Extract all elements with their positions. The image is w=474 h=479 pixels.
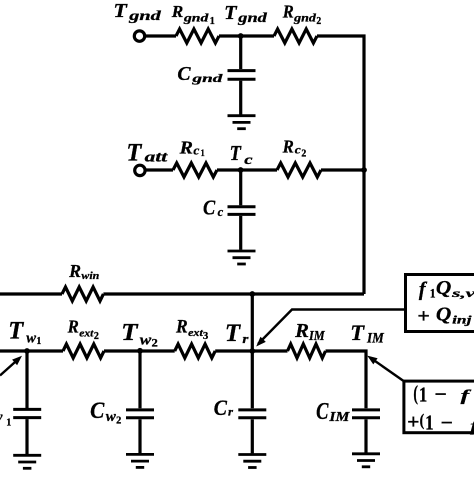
svg-text:R: R — [282, 137, 294, 157]
svg-text:s,v: s,v — [450, 286, 474, 300]
svg-text:IM: IM — [328, 410, 350, 425]
svg-text:1: 1 — [210, 16, 215, 27]
svg-text:R: R — [67, 317, 79, 337]
svg-text:T: T — [113, 0, 128, 22]
svg-text:IM: IM — [366, 330, 385, 346]
svg-text:1: 1 — [36, 336, 41, 347]
svg-text:C: C — [177, 63, 191, 85]
svg-text:gnd: gnd — [128, 9, 162, 24]
svg-text:1: 1 — [419, 382, 427, 406]
svg-text:ext: ext — [188, 327, 204, 339]
svg-text:−: − — [435, 382, 447, 406]
svg-text:ext: ext — [79, 328, 94, 340]
svg-text:+: + — [417, 305, 430, 327]
svg-text:T: T — [126, 139, 143, 166]
svg-text:C: C — [214, 395, 227, 420]
svg-text:gnd: gnd — [237, 11, 268, 26]
svg-text:f: f — [470, 418, 474, 435]
svg-text:1: 1 — [425, 411, 434, 435]
svg-text:r: r — [228, 407, 234, 419]
svg-text:T: T — [350, 320, 365, 345]
svg-text:3: 3 — [203, 331, 208, 342]
svg-text:(: ( — [420, 411, 425, 430]
svg-text:C: C — [90, 398, 105, 423]
svg-text:R: R — [175, 317, 188, 338]
svg-text:T: T — [224, 2, 237, 24]
svg-text:C: C — [203, 195, 216, 219]
svg-text:R: R — [178, 138, 192, 158]
svg-text:att: att — [145, 149, 169, 165]
svg-text:Q: Q — [436, 277, 452, 299]
svg-text:c: c — [218, 205, 224, 219]
svg-text:−: − — [441, 410, 453, 434]
svg-text:w: w — [26, 330, 37, 346]
svg-text:1: 1 — [201, 149, 206, 159]
svg-text:gnd: gnd — [183, 12, 209, 24]
svg-text:win: win — [81, 270, 99, 282]
svg-text:2: 2 — [94, 331, 99, 342]
svg-text:2: 2 — [116, 415, 121, 426]
svg-text:(: ( — [413, 381, 418, 405]
svg-text:T: T — [8, 318, 25, 345]
svg-text:Q: Q — [436, 303, 452, 325]
svg-text:C: C — [316, 398, 329, 425]
svg-text:gnd: gnd — [191, 71, 224, 85]
svg-text:inj: inj — [452, 313, 472, 327]
svg-text:IM: IM — [308, 329, 325, 344]
svg-text:1: 1 — [430, 286, 436, 300]
svg-text:T: T — [121, 319, 139, 346]
svg-text:T: T — [230, 141, 242, 165]
svg-text:1: 1 — [6, 417, 11, 428]
svg-text:R: R — [282, 2, 294, 22]
svg-text:+: + — [407, 410, 419, 434]
svg-text:T: T — [225, 318, 242, 347]
svg-text:c: c — [244, 153, 253, 168]
svg-text:R: R — [171, 2, 184, 21]
svg-text:2: 2 — [152, 336, 158, 350]
svg-text:R: R — [294, 320, 309, 342]
svg-text:2: 2 — [301, 149, 306, 160]
svg-text:c: c — [193, 144, 199, 158]
svg-text:R: R — [68, 261, 81, 281]
svg-text:gnd: gnd — [293, 12, 316, 24]
svg-text:2: 2 — [316, 16, 321, 27]
